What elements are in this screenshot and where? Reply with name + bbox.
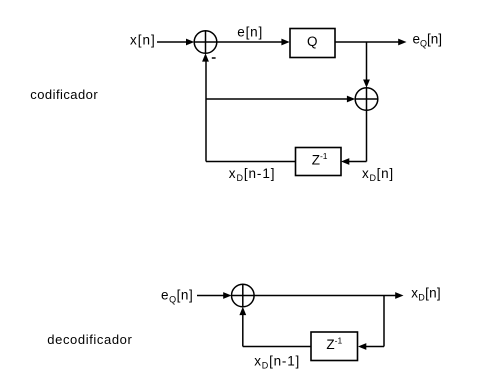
summing junction S1 (194, 31, 217, 54)
wire Q to output eQ[n] (335, 39, 407, 46)
label codificador (30, 87, 98, 102)
wire eQ[n] to summer S3 (197, 292, 232, 299)
wire S3 to output xD[n] (254, 292, 403, 299)
wire branch down from decoder output (383, 296, 385, 347)
wire S1 to quantizer Q (217, 39, 290, 46)
label x[n] (130, 32, 156, 47)
svg-text:e[n]: e[n] (237, 24, 263, 39)
svg-text:x[n]: x[n] (130, 32, 156, 47)
label eQ[n] output (413, 32, 443, 49)
svg-text:Q: Q (307, 34, 318, 49)
label eQ[n] decoder input (161, 288, 193, 305)
svg-text:eQ[n]: eQ[n] (161, 288, 193, 305)
wire up to S3 bottom input (239, 307, 246, 347)
label e[n] (237, 24, 263, 39)
svg-text:xD[n]: xD[n] (362, 166, 394, 183)
svg-text:xD[n-1]: xD[n-1] (229, 166, 276, 183)
wire up to S1 minus input (202, 53, 209, 161)
wire xD[n-1] to summer S2 left input (206, 96, 355, 103)
wire Z1 output to the left (206, 161, 296, 163)
label decodificador (47, 332, 132, 347)
wire into delay Z2 right side (358, 343, 384, 350)
svg-text:xD[n]: xD[n] (411, 285, 441, 302)
summing junction S2 (355, 88, 378, 111)
svg-text:xD[n-1]: xD[n-1] (254, 354, 300, 371)
minus sign at S1 lower input (212, 57, 216, 59)
summing junction S3 (232, 284, 255, 307)
label xD[n-1] top diagram (229, 166, 276, 183)
label xD[n] top diagram (362, 166, 394, 183)
svg-text:eQ[n]: eQ[n] (413, 32, 443, 49)
wire into delay Z1 right side (341, 158, 367, 165)
svg-text:decodificador: decodificador (47, 332, 132, 347)
delay element Z1 (z^-1) (296, 148, 342, 176)
quantizer Q (290, 29, 335, 58)
svg-text:codificador: codificador (30, 87, 98, 102)
wire Z2 output to the left (243, 346, 311, 348)
wire S2 output down to feedback line (366, 110, 368, 161)
delay element Z2 (z^-1) (311, 332, 358, 361)
wire branch from Q output down to summer S2 (363, 42, 370, 88)
wire x[n] to summer S1 (157, 39, 194, 46)
label xD[n] decoder output (411, 285, 441, 302)
label xD[n-1] decoder (254, 354, 300, 371)
